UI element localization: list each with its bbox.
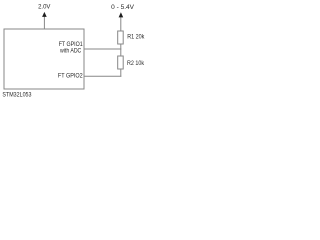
background — [0, 0, 150, 101]
power arrow 0-5.4V stem wire — [120, 17, 122, 31]
svg-text:0 - 5.4V: 0 - 5.4V — [111, 4, 135, 11]
svg-text:R2 10k: R2 10k — [127, 60, 145, 67]
svg-text:with ADC: with ADC — [59, 48, 81, 55]
wire R1 to R2 junction segment — [120, 44, 122, 56]
resistor R1 — [118, 31, 124, 44]
svg-text:FT GPIO2: FT GPIO2 — [58, 73, 83, 80]
MCU box U1 STM32L053 — [4, 29, 84, 89]
power arrow 2.0V stem wire — [43, 16, 45, 29]
wire FT GPIO2 pin to R2 bottom — [84, 75, 121, 77]
svg-text:STM32L053: STM32L053 — [2, 92, 31, 99]
wire R2 bottom lead — [120, 69, 122, 77]
svg-text:2.0V: 2.0V — [38, 4, 51, 11]
svg-text:R1 20k: R1 20k — [127, 34, 145, 41]
wire FT GPIO1 pin to divider node — [84, 48, 121, 50]
power arrow 2.0V head — [42, 12, 47, 17]
power arrow 0-5.4V head — [119, 12, 124, 17]
resistor R2 — [118, 56, 124, 69]
